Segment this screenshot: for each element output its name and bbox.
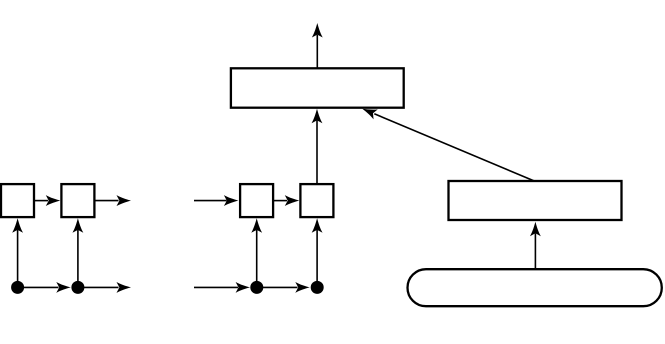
arrow M3 up to M1 <box>251 218 262 287</box>
node L4 (left cluster, input dot 2) <box>71 281 84 294</box>
square L2 (left cluster, cell 2) <box>61 184 94 217</box>
arrow input to M3 <box>194 282 250 293</box>
arrow S up to R <box>530 222 541 269</box>
top box T (output layer) <box>231 68 404 107</box>
arrow L1 to L2 <box>35 195 61 206</box>
arrow M4 up to M2 <box>312 218 323 287</box>
square M1 (middle cluster, cell 1) <box>240 184 273 217</box>
square M2 (middle cluster, cell 2) <box>300 184 333 217</box>
arrow T output up <box>312 23 323 68</box>
diagonal arrow R to top box T <box>360 104 534 181</box>
stadium S (input sequence) <box>408 269 662 306</box>
arrow input to M1 <box>194 195 238 206</box>
arrow M2 up to top box <box>312 109 323 184</box>
node M3 (middle cluster, input dot 1) <box>250 281 263 294</box>
arrow M3 to M4 <box>257 282 310 293</box>
node L3 (left cluster, input dot 1) <box>11 281 24 294</box>
arrow L3 up to L1 <box>12 218 23 287</box>
node M4 (middle cluster, input dot 2) <box>311 281 324 294</box>
arrow L4 output right <box>78 282 131 293</box>
arrow M1 to M2 <box>274 195 300 206</box>
arrow L2 output right <box>95 195 132 206</box>
arrow L3 to L4 <box>18 282 71 293</box>
arrow L4 up to L2 <box>72 218 83 287</box>
right box R (feature layer) <box>449 181 622 220</box>
square L1 (left cluster, cell 1) <box>1 184 34 217</box>
